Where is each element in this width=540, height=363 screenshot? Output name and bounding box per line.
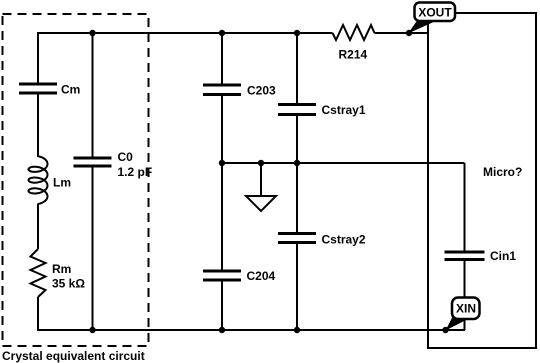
svg-text:Cstray1: Cstray1 — [322, 103, 366, 117]
junction dot (445.5,330) — [442, 327, 448, 333]
svg-text:Micro?: Micro? — [483, 165, 522, 179]
wire Cstray1 branch upper (297,33)-(297,104.5) — [296, 33, 298, 105]
svg-text:Lm: Lm — [53, 176, 71, 190]
dashed box: crystal equivalent circuit boundary — [3, 14, 149, 346]
capacitor Cstray1 — [278, 103, 366, 117]
wire C0 branch lower (92.5,166)-(92.5,330) — [92, 166, 94, 330]
capacitor Cin1 — [445, 249, 517, 263]
pin label XOUT — [415, 3, 456, 22]
svg-text:C0: C0 — [118, 150, 134, 164]
wire C204 to bottom rail — [221, 280, 223, 330]
capacitor C204 — [203, 269, 276, 283]
XOUT callout tail — [408, 15, 438, 34]
junction dot (222,330) — [219, 327, 225, 333]
ground — [246, 196, 276, 211]
wire: Cm to Lm — [37, 93, 39, 157]
wire top rail left segment (38,33)-(332.5,33) — [38, 32, 333, 34]
wire bottom rail (38,330)-(465,330) — [38, 329, 465, 331]
wire top rail right segment (374.5,33)-(428,33) — [375, 32, 429, 34]
svg-text:1.2 pF: 1.2 pF — [118, 165, 153, 179]
svg-text:XIN: XIN — [456, 302, 476, 316]
wire Cin1 to XIN pin — [464, 260, 466, 299]
capacitor C0 1.2 pF — [74, 150, 153, 179]
wire: Lm to Rm — [37, 204, 39, 250]
wire Cstray2 to bottom rail — [296, 243, 298, 331]
capacitor C203 — [203, 84, 276, 98]
svg-text:C203: C203 — [247, 84, 276, 98]
pin label XIN — [452, 298, 480, 320]
junction dot (261,163) — [258, 160, 264, 166]
junction dot (297,330) — [294, 327, 300, 333]
junction dot (92.5,33) — [89, 30, 95, 36]
junction dot (297,163) — [294, 160, 300, 166]
wire middle rail (222,163)-(464.5,163) — [222, 162, 465, 164]
junction dot (222,163) — [219, 160, 225, 166]
inductor Lm — [29, 156, 72, 204]
Micro box — [428, 13, 536, 348]
wire below XIN box to bottom rail — [464, 319, 466, 330]
wire left branch: top rail to Cm — [37, 32, 39, 84]
wire Cstray1 to middle rail — [296, 115, 298, 164]
svg-text:Rm: Rm — [52, 262, 71, 276]
svg-text:R214: R214 — [339, 48, 368, 62]
wire C203 branch upper (222,33)-(222,85) — [221, 33, 223, 85]
resistor R214 — [333, 25, 375, 62]
wire middle rail to C204 — [221, 163, 223, 271]
ground stub wire — [260, 163, 262, 196]
junction dot (409,33) — [406, 30, 412, 36]
capacitor Cm — [19, 83, 80, 97]
junction dot (92.5,330) — [89, 327, 95, 333]
svg-text:C204: C204 — [247, 269, 276, 283]
wire middle rail to Cstray2 — [296, 163, 298, 234]
svg-text:Cin1: Cin1 — [490, 249, 516, 263]
junction dot (222,33) — [219, 30, 225, 36]
wire: Rm to bottom rail — [37, 297, 39, 331]
XIN callout tail — [446, 312, 468, 331]
svg-text:35 kΩ: 35 kΩ — [52, 277, 85, 291]
resistor Rm 35 kOhm — [31, 249, 86, 297]
svg-text:XOUT: XOUT — [418, 6, 452, 20]
svg-text:Crystal equivalent circuit: Crystal equivalent circuit — [2, 349, 145, 363]
wire Cin1 branch from middle rail — [464, 163, 466, 252]
svg-text:Cm: Cm — [61, 83, 80, 97]
capacitor Cstray2 — [278, 233, 366, 247]
wire C203 to middle rail — [221, 95, 223, 164]
svg-text:Cstray2: Cstray2 — [322, 233, 366, 247]
wire C0 branch upper (92.5,33)-(92.5,158) — [92, 33, 94, 158]
junction dot (297,33) — [294, 30, 300, 36]
